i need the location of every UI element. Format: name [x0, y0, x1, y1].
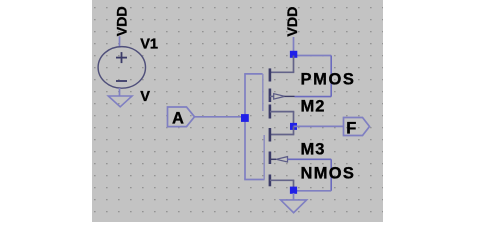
NMOS channel segment bottom [269, 175, 272, 187]
PMOS bulk arrow pointing right [274, 94, 285, 99]
voltage source V1 [98, 47, 145, 89]
PMOS channel segment middle [269, 89, 272, 103]
svg-text:M2: M2 [301, 97, 326, 115]
PMOS bulk tick [270, 95, 274, 97]
svg-text:V1: V1 [140, 37, 158, 53]
wire A to gate bus [195, 116, 246, 118]
svg-text:V: V [140, 89, 150, 105]
wire NMOS bulk loop vertical [330, 159, 332, 191]
svg-text:VDD: VDD [115, 6, 131, 36]
wire PMOS source vertical [293, 56, 295, 73]
wire gate lead to NMOS [244, 179, 264, 181]
node junction VDD [290, 51, 297, 58]
svg-text:M3: M3 [301, 141, 326, 159]
wire gate bus vertical [244, 74, 246, 179]
PMOS source stub [270, 71, 294, 73]
wire NMOS bulk to loop [288, 158, 332, 160]
svg-text:VDD: VDD [285, 7, 301, 37]
NMOS bulk tick [270, 158, 276, 160]
V1 body circle [98, 47, 145, 89]
NMOS channel segment top [269, 128, 272, 142]
output port F pentagon [344, 118, 370, 136]
wire VDD label stem [293, 37, 295, 56]
wire ground stem [293, 193, 295, 200]
node junction output F [290, 123, 297, 130]
PMOS drain stub [270, 111, 294, 113]
node junction NMOS source/ground [290, 187, 297, 194]
svg-text:A: A [172, 109, 184, 127]
input port A pentagon [168, 107, 195, 127]
wire PMOS bulk to loop [295, 96, 332, 98]
transistor M2 PMOS [263, 56, 295, 127]
wire NMOS drain vertical [293, 126, 295, 134]
NMOS bulk arrow pointing left [276, 157, 287, 162]
wire output to F port [294, 125, 344, 127]
wire V1 bottom to ground [119, 88, 121, 96]
svg-text:NMOS: NMOS [301, 164, 356, 182]
NMOS gate bar [263, 135, 265, 180]
V1 plus mark [116, 52, 127, 63]
ground symbol under V1 [108, 96, 132, 107]
node junction A/gate bus [241, 114, 249, 122]
wire VDD label stem to V1 top [119, 36, 121, 47]
PMOS gate bar [262, 74, 264, 111]
transistor M3 NMOS [264, 126, 294, 191]
PMOS bulk pin lead [285, 95, 295, 97]
wire NMOS bulk loop bottom [294, 190, 332, 192]
PMOS channel segment bottom [269, 105, 272, 119]
wire gate lead to PMOS [244, 73, 262, 75]
wire PMOS bulk loop vertical [330, 56, 332, 97]
svg-text:F: F [346, 120, 356, 138]
PMOS channel segment top [269, 68, 272, 81]
V1 minus mark [116, 80, 127, 82]
NMOS channel segment middle [269, 152, 272, 165]
ground symbol under NMOS [281, 200, 307, 213]
wire PMOS drain vertical [293, 112, 295, 127]
NMOS source stub [270, 179, 294, 181]
svg-text:PMOS: PMOS [301, 70, 356, 88]
wire VDD rail to bulk loop [294, 55, 332, 57]
NMOS drain stub [270, 134, 294, 136]
wire NMOS source vertical [293, 180, 295, 191]
